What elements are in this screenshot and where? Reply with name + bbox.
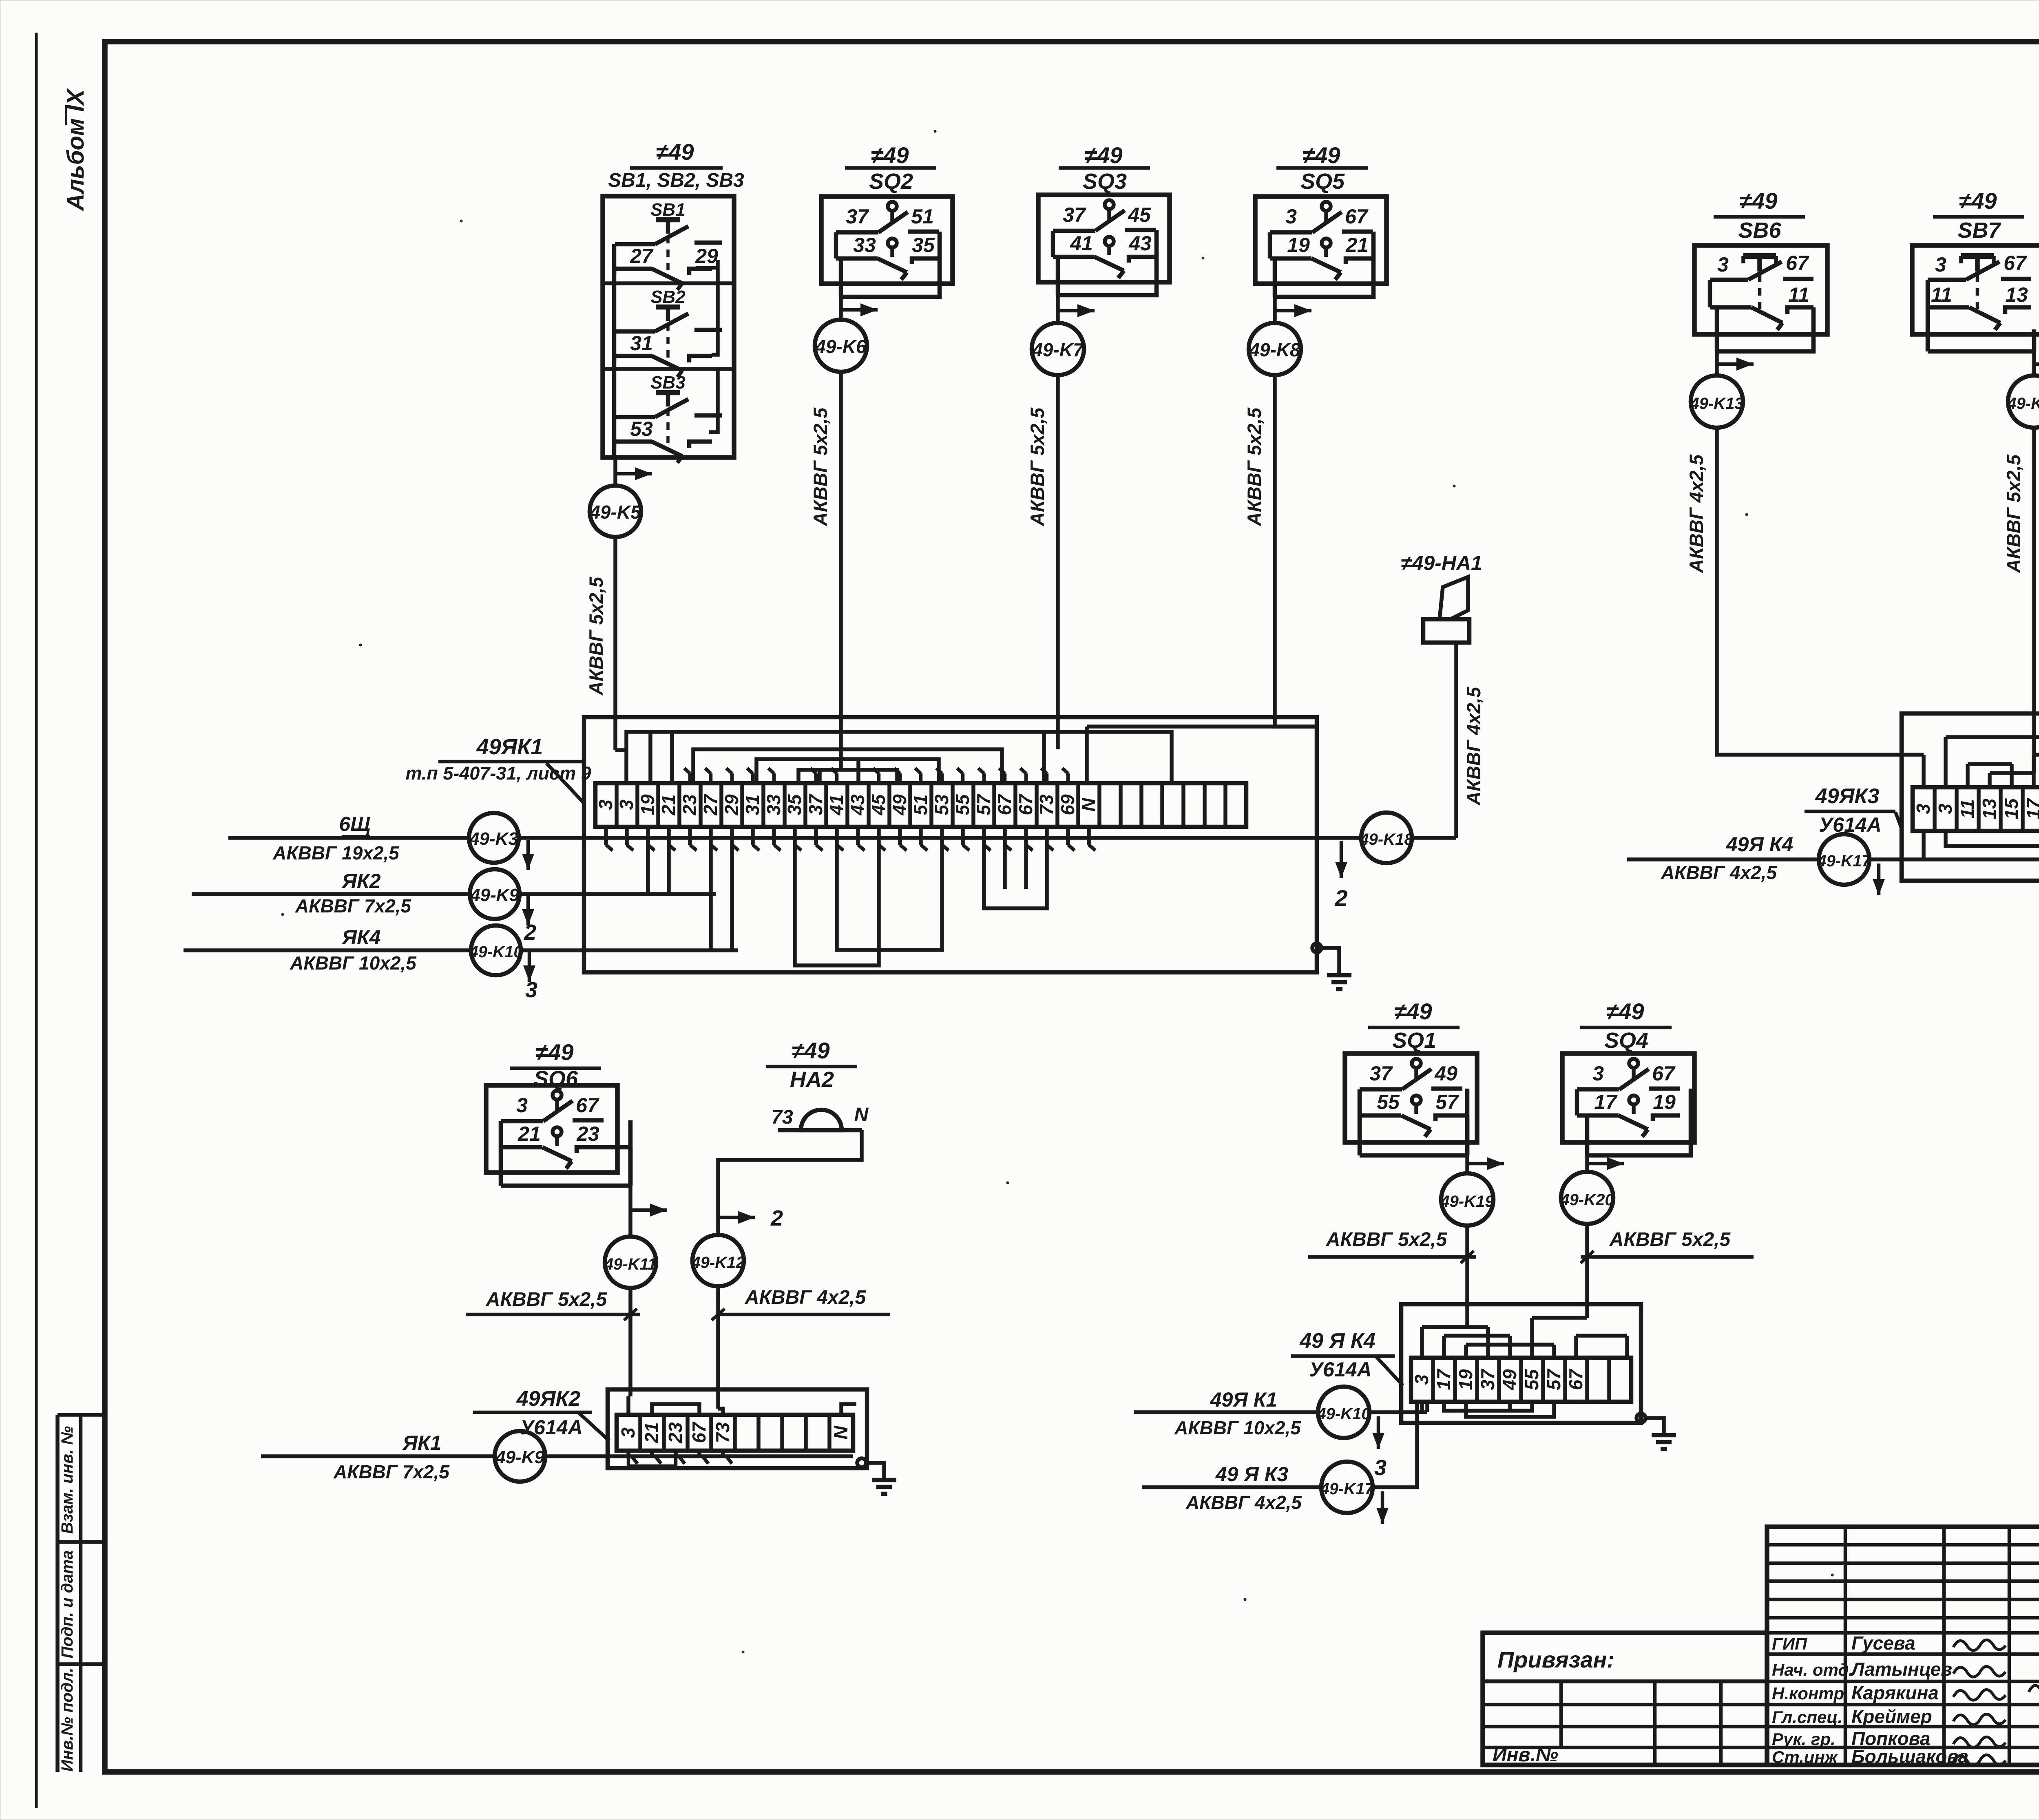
svg-text:31: 31 — [630, 332, 653, 355]
cable label АКВВГ 5х2,5 (K20) — [1581, 1229, 1754, 1263]
svg-text:17: 17 — [1433, 1368, 1454, 1390]
svg-text:49Я К4: 49Я К4 — [1726, 833, 1794, 856]
down arrow node 2 right of 49ЯК1 — [1334, 841, 1347, 911]
wire HA2 to 49-K12 — [718, 1130, 862, 1235]
svg-text:37: 37 — [1369, 1062, 1393, 1085]
svg-text:ЯК4: ЯК4 — [341, 926, 381, 949]
svg-text:27: 27 — [700, 793, 721, 816]
svg-text:≠49: ≠49 — [1302, 142, 1340, 168]
wire SQ5 along top into bundle — [1087, 724, 1317, 729]
svg-text:АКВВГ 4х2,5: АКВВГ 4х2,5 — [1463, 687, 1484, 806]
wire SQ3 into bundle — [1056, 732, 1060, 749]
svg-text:АКВВГ 10х2,5: АКВВГ 10х2,5 — [1174, 1417, 1301, 1438]
svg-text:≠49: ≠49 — [656, 139, 694, 165]
push-button SB6 — [1694, 245, 1827, 351]
svg-text:6Щ: 6Щ — [339, 813, 370, 835]
svg-text:53: 53 — [630, 417, 653, 440]
svg-text:49: 49 — [1499, 1369, 1520, 1391]
wire 49-K19 to 49ЯК4 — [1465, 1226, 1469, 1327]
wire SQ2 into bundle — [839, 741, 843, 770]
svg-text:33: 33 — [763, 794, 784, 815]
svg-text:49-K10: 49-K10 — [1316, 1405, 1370, 1423]
cable label АКВВГ 4х2,5 (HA1) — [1463, 687, 1484, 806]
svg-text:АКВВГ 10х2,5: АКВВГ 10х2,5 — [290, 952, 417, 974]
cable circle 49-K11 — [604, 1237, 657, 1288]
limit switch SQ5 — [1255, 197, 1387, 297]
terminal box 49ЯК2 enclosure — [608, 1389, 867, 1468]
svg-text:3: 3 — [1935, 804, 1956, 814]
svg-text:13: 13 — [1979, 798, 2000, 819]
svg-text:Привязан:: Привязан: — [1497, 1647, 1614, 1672]
svg-text:АКВВГ 7х2,5: АКВВГ 7х2,5 — [333, 1461, 450, 1482]
wire 49-K14 down into 49ЯК3 box — [2032, 428, 2036, 733]
svg-text:31: 31 — [742, 794, 763, 815]
svg-text:3: 3 — [1592, 1062, 1604, 1085]
svg-text:37: 37 — [1477, 1368, 1498, 1390]
svg-text:11: 11 — [1957, 799, 1978, 819]
svg-text:21: 21 — [517, 1122, 541, 1145]
internal wire rail of SB1-SB3 block — [614, 244, 718, 457]
cable circle 49-K8 — [1249, 323, 1301, 375]
terminal box 49ЯК1 enclosure — [584, 717, 1317, 972]
wire SB7 to 49-K14 — [2034, 351, 2039, 375]
svg-text:3: 3 — [616, 800, 637, 810]
internal wiring below 49ЯК4 strip — [1422, 1402, 1554, 1417]
svg-text:49-K8: 49-K8 — [1249, 339, 1300, 360]
svg-text:49-K18: 49-K18 — [1359, 830, 1413, 848]
svg-text:67: 67 — [2004, 252, 2027, 274]
svg-text:49-K9: 49-K9 — [495, 1447, 544, 1467]
wire 49ЯК3 up into 49ЯК4 — [1373, 1402, 1417, 1524]
svg-text:АКВВГ 5х2,5: АКВВГ 5х2,5 — [2003, 454, 2024, 573]
wire 49-K5 to terminal box 49ЯК1 — [613, 537, 617, 750]
line 6Щ with cable label — [228, 813, 469, 864]
svg-text:67: 67 — [1015, 793, 1036, 815]
svg-text:17: 17 — [1594, 1091, 1618, 1113]
svg-text:55: 55 — [1377, 1091, 1400, 1113]
terminal strip 49ЯК2 — [617, 1415, 853, 1451]
svg-text:21: 21 — [1345, 234, 1369, 256]
terminal stubs below 49ЯК1 strip — [606, 827, 1095, 850]
cable label АКВВГ 5х2,5 (K5) — [585, 576, 607, 696]
cable circle 49-K10 — [469, 925, 522, 975]
svg-text:67: 67 — [1565, 1368, 1586, 1390]
node #49 header for SQ3 — [1059, 142, 1150, 194]
svg-text:2: 2 — [770, 1206, 783, 1230]
wire SQ6 to 49-K11 — [630, 1186, 667, 1237]
svg-text:23: 23 — [576, 1122, 599, 1145]
svg-text:3: 3 — [1717, 253, 1729, 276]
push-button SB1 contacts — [614, 200, 722, 290]
svg-text:57: 57 — [1543, 1368, 1564, 1390]
cable circle 49-K9 — [470, 869, 520, 919]
svg-text:11: 11 — [1788, 283, 1809, 306]
horn HA1 — [1423, 577, 1469, 643]
vertical label Подп. и дата — [58, 1551, 76, 1659]
line ЯК1 with cable label — [261, 1431, 494, 1482]
wire 49-K7 to terminal box 49ЯК1 — [1056, 375, 1060, 732]
svg-text:SB7: SB7 — [1957, 218, 2001, 243]
svg-text:У614А: У614А — [520, 1416, 582, 1439]
svg-text:АКВВГ 5х2,5: АКВВГ 5х2,5 — [1026, 407, 1048, 526]
svg-text:21: 21 — [641, 1422, 662, 1443]
terminal stubs below 49ЯК2 strip — [628, 1451, 732, 1466]
title block grid — [1767, 1527, 2039, 1765]
left margin column cells — [57, 1415, 105, 1772]
svg-text:37: 37 — [805, 793, 826, 815]
svg-text:3: 3 — [1411, 1374, 1432, 1385]
svg-text:57: 57 — [973, 793, 994, 815]
wire from SB block to 49-K5 — [615, 457, 652, 486]
svg-text:АКВВГ 5х2,5: АКВВГ 5х2,5 — [1326, 1229, 1448, 1250]
svg-text:41: 41 — [826, 794, 847, 815]
wire SQ4 to 49-K20 — [1587, 1155, 1624, 1172]
svg-text:SQ3: SQ3 — [1083, 169, 1127, 194]
label 49ЯК3 У614А with leader — [1805, 784, 1903, 836]
push-button block SB1 SB2 SB3 enclosure — [603, 196, 734, 457]
svg-text:49-K10: 49-K10 — [469, 943, 522, 961]
vertical label Взам. инв. № — [58, 1426, 76, 1534]
svg-text:Гусева: Гусева — [1851, 1632, 1915, 1654]
svg-text:SQ2: SQ2 — [869, 169, 913, 194]
svg-text:43: 43 — [847, 794, 868, 816]
svg-text:SB3: SB3 — [650, 373, 686, 393]
cable label АКВВГ 5х2,5 (K19) — [1308, 1229, 1476, 1263]
node #49 header for SQ2 — [845, 142, 936, 194]
svg-text:Креймер: Креймер — [1851, 1706, 1932, 1727]
svg-text:49-K5: 49-K5 — [589, 501, 641, 523]
vertical label Альбом IX — [62, 88, 89, 212]
label #49-HA1 — [1401, 552, 1482, 574]
svg-text:Рук. гр.: Рук. гр. — [1772, 1729, 1836, 1749]
scan specks — [281, 130, 2039, 1653]
svg-text:49-K17: 49-K17 — [1320, 1480, 1374, 1498]
svg-text:49-K17: 49-K17 — [1817, 852, 1871, 870]
cable circle 49-K18 — [1359, 813, 1413, 863]
svg-text:Ст.инж: Ст.инж — [1772, 1747, 1838, 1767]
svg-text:55: 55 — [1521, 1369, 1542, 1390]
bell HA2 — [771, 1104, 869, 1130]
svg-text:49: 49 — [889, 794, 910, 816]
earth ground at 49ЯК4 — [1637, 1414, 1676, 1449]
svg-text:19: 19 — [1653, 1091, 1676, 1113]
svg-text:49-K11: 49-K11 — [604, 1255, 657, 1273]
svg-text:55: 55 — [952, 794, 973, 815]
node #49 header for SB6 — [1714, 188, 1805, 243]
svg-text:АКВВГ 4х2,5: АКВВГ 4х2,5 — [1661, 862, 1777, 883]
svg-text:Гл.спец.: Гл.спец. — [1772, 1707, 1842, 1727]
svg-text:11: 11 — [1931, 283, 1952, 306]
sheet title Подъемник скреперный — [2039, 1706, 2039, 1758]
wire SQ2 to 49-K6 — [841, 297, 878, 320]
cable label АКВВГ 5х2,5 (K8) — [1243, 407, 1265, 526]
wire 49-K6 to terminal box 49ЯК1 — [839, 372, 843, 741]
svg-text:67: 67 — [576, 1094, 599, 1117]
svg-text:21: 21 — [658, 794, 679, 815]
svg-text:Инв.№: Инв.№ — [1493, 1744, 1558, 1766]
line 49ЯК3 with cable label (bottom) — [1142, 1463, 1321, 1513]
svg-text:49-K13: 49-K13 — [1690, 395, 1743, 413]
svg-text:SB1, SB2, SB3: SB1, SB2, SB3 — [608, 170, 744, 191]
label 49ЯК2 У614А with leader — [473, 1387, 609, 1441]
svg-text:АКВВГ 5х2,5: АКВВГ 5х2,5 — [585, 576, 607, 696]
wire ЯК4 into 49ЯК1 — [521, 950, 738, 1002]
svg-text:≠49: ≠49 — [1084, 142, 1122, 168]
svg-text:29: 29 — [721, 794, 742, 816]
svg-text:АКВВГ 4х2,5: АКВВГ 4х2,5 — [745, 1287, 867, 1308]
svg-text:2: 2 — [524, 920, 536, 945]
svg-text:АКВВГ 5х2,5: АКВВГ 5х2,5 — [809, 407, 831, 526]
svg-text:37: 37 — [846, 205, 869, 228]
svg-text:SQ5: SQ5 — [1300, 169, 1345, 194]
node #49 header for SQ5 — [1276, 142, 1368, 194]
limit switch SQ6 — [486, 1085, 630, 1186]
svg-text:АКВВГ 4х2,5: АКВВГ 4х2,5 — [1185, 1492, 1302, 1513]
svg-text:≠49: ≠49 — [1739, 188, 1777, 214]
svg-text:N: N — [854, 1104, 869, 1126]
svg-text:49-K6: 49-K6 — [815, 336, 867, 357]
label 49ЯК1 with leader — [405, 735, 591, 804]
cable label АКВВГ 4х2,5 (49-K13) — [1685, 454, 1707, 573]
svg-text:49Я К1: 49Я К1 — [1210, 1388, 1278, 1411]
svg-text:Большакова: Большакова — [1851, 1746, 1968, 1767]
terminal box 49ЯК4 enclosure — [1401, 1304, 1641, 1423]
svg-text:73: 73 — [712, 1422, 733, 1443]
wire SQ3 to 49-K7 — [1058, 295, 1095, 323]
wire 49-K12 to 49ЯК2 — [712, 1286, 725, 1409]
earth ground at 49ЯК2 — [857, 1458, 896, 1494]
svg-text:49 Я К4: 49 Я К4 — [1299, 1329, 1376, 1353]
terminal strip 49ЯК1 — [595, 783, 1246, 827]
long jumpers below 49ЯК1 strip — [648, 845, 1047, 965]
node #49 header for SQ6 — [510, 1039, 601, 1091]
cable circle 49-K7 — [1032, 323, 1084, 375]
page scan edge shadow — [35, 33, 38, 1808]
svg-text:49-K3: 49-K3 — [469, 829, 518, 849]
push-button SB7 — [1912, 245, 2039, 351]
svg-text:3: 3 — [516, 1094, 528, 1117]
svg-text:17: 17 — [2023, 797, 2039, 819]
svg-text:SB6: SB6 — [1738, 218, 1781, 243]
svg-text:27: 27 — [630, 245, 654, 267]
svg-text:SB2: SB2 — [650, 287, 686, 307]
push-button SB3 contacts — [614, 373, 722, 463]
svg-text:3: 3 — [617, 1427, 639, 1438]
svg-text:АКВВГ 7х2,5: АКВВГ 7х2,5 — [295, 895, 411, 917]
limit switch SQ2 — [821, 197, 953, 297]
vertical label Инв. № подл. — [58, 1668, 76, 1772]
wire 49-K11 to 49ЯК2 — [624, 1288, 637, 1396]
cable circle 49-K17 (bottom) — [1320, 1462, 1374, 1513]
line ЯК4 with cable label — [184, 926, 471, 974]
cable circle 49-K9 (bottom) — [495, 1431, 545, 1482]
svg-text:49: 49 — [1434, 1062, 1457, 1085]
svg-text:3: 3 — [1374, 1456, 1387, 1480]
wire 49-K8 down and left into 49ЯК1 box — [1275, 375, 1317, 727]
cable circle 49-K6 — [815, 320, 867, 372]
svg-text:35: 35 — [784, 794, 805, 815]
svg-text:АКВВГ 4х2,5: АКВВГ 4х2,5 — [1685, 454, 1707, 573]
limit switch SQ1 — [1345, 1054, 1477, 1155]
svg-text:Карякина: Карякина — [1851, 1682, 1939, 1703]
wire 49-K17 into 49ЯК3 — [1869, 859, 1902, 895]
svg-text:3: 3 — [1285, 205, 1297, 228]
svg-text:49ЯК1: 49ЯК1 — [476, 735, 543, 759]
terminal box 49ЯК3 enclosure — [1902, 713, 2039, 881]
cable circle 49-K20 — [1560, 1172, 1614, 1224]
svg-text:N: N — [830, 1426, 851, 1440]
svg-text:43: 43 — [1128, 232, 1152, 255]
cable circle 49-K19 — [1440, 1173, 1494, 1226]
svg-text:2: 2 — [1334, 885, 1347, 911]
svg-text:49-K7: 49-K7 — [1032, 339, 1084, 360]
svg-text:≠49: ≠49 — [871, 142, 909, 168]
svg-text:69: 69 — [1057, 794, 1078, 815]
wire 6Щ into 49ЯК1 and to 49-K18 — [519, 838, 1361, 870]
svg-text:41: 41 — [1070, 232, 1093, 255]
jumper bundle above 49ЯК3 strip — [1917, 733, 2039, 787]
svg-text:19: 19 — [637, 794, 658, 815]
svg-text:13: 13 — [2005, 283, 2028, 306]
svg-text:19: 19 — [1287, 234, 1310, 256]
node #49 header for SB7 — [1933, 188, 2024, 243]
svg-text:Взам. инв. №: Взам. инв. № — [58, 1426, 76, 1534]
svg-text:N: N — [1078, 798, 1099, 812]
line 49ЯК4 with cable label into 49ЯК3 — [1627, 833, 1818, 883]
limit switch SQ3 — [1038, 195, 1170, 295]
node #49 header for SB1,SB2,SB3 — [608, 139, 744, 191]
svg-text:23: 23 — [665, 1422, 686, 1444]
svg-text:57: 57 — [1435, 1091, 1459, 1113]
wire 49-K13 down then right into 49ЯК3 box — [1717, 428, 1917, 755]
limit switch SQ4 — [1562, 1054, 1694, 1155]
svg-text:67: 67 — [994, 793, 1015, 815]
cable circle 49-K10 (bottom) — [1316, 1387, 1370, 1438]
svg-text:23: 23 — [679, 794, 700, 816]
push-button SB2 contacts — [614, 287, 722, 377]
cable label АКВВГ 5х2,5 (K6) — [809, 407, 831, 526]
svg-text:3: 3 — [1935, 253, 1946, 276]
cable label АКВВГ 5х2,5 (K7) — [1026, 407, 1048, 526]
svg-text:73: 73 — [1036, 794, 1057, 815]
svg-text:19: 19 — [1455, 1369, 1476, 1390]
terminal strip 49ЯК3 — [1913, 787, 2039, 831]
cable circle 49-K12 — [691, 1235, 745, 1286]
cable label АКВВГ 5х2,5 (K11) — [466, 1289, 640, 1314]
wire 49-K18 to horn HA1 — [1412, 643, 1456, 838]
node #49 header for SQ1 — [1368, 998, 1460, 1053]
svg-text:ГИП: ГИП — [1772, 1634, 1807, 1653]
svg-text:49-K9: 49-K9 — [470, 885, 519, 905]
svg-text:51: 51 — [911, 205, 934, 228]
wire 49-K20 to 49ЯК4 — [1585, 1226, 1589, 1318]
svg-text:49ЯК2: 49ЯК2 — [516, 1387, 581, 1411]
node #49 header for SQ4 — [1580, 998, 1672, 1053]
signatures squiggles — [1953, 1640, 2039, 1765]
svg-text:Латынцев: Латынцев — [1850, 1659, 1952, 1680]
svg-text:Инв.№ подл.: Инв.№ подл. — [58, 1668, 76, 1772]
svg-text:Нач. отд.: Нач. отд. — [1772, 1660, 1853, 1679]
wire SQ1 to 49-K19 — [1467, 1155, 1504, 1173]
svg-text:45: 45 — [868, 794, 889, 816]
label 49 Я К4 У614А with leader — [1291, 1329, 1403, 1385]
svg-text:≠49: ≠49 — [535, 1039, 573, 1065]
cable label АКВВГ 5х2,5 (49-K14) — [2003, 454, 2024, 573]
cable circle 49-K3 — [469, 813, 519, 863]
cable circle 49-K13 — [1690, 375, 1743, 428]
svg-text:Н.контр.: Н.контр. — [1772, 1684, 1849, 1703]
svg-text:АКВВГ 5х2,5: АКВВГ 5х2,5 — [1243, 407, 1265, 526]
jumper bundle above 49ЯК2 strip — [628, 1396, 856, 1415]
svg-text:67: 67 — [1786, 252, 1809, 274]
svg-text:49-K19: 49-K19 — [1440, 1193, 1494, 1210]
svg-text:49 Я К3: 49 Я К3 — [1215, 1463, 1289, 1486]
wire ЯК1 into 49ЯК2 — [545, 1454, 853, 1458]
svg-text:SQ4: SQ4 — [1604, 1028, 1648, 1053]
svg-text:73: 73 — [771, 1107, 793, 1128]
svg-text:67: 67 — [1345, 205, 1369, 228]
svg-text:SQ1: SQ1 — [1392, 1028, 1436, 1053]
jumper bundle above 49ЯК4 strip — [1422, 1318, 1627, 1358]
svg-text:АКВВГ 5х2,5: АКВВГ 5х2,5 — [486, 1289, 608, 1310]
svg-text:49-K14: 49-K14 — [2007, 395, 2039, 413]
svg-text:45: 45 — [1128, 203, 1151, 226]
svg-text:3: 3 — [1913, 804, 1934, 814]
svg-text:37: 37 — [1063, 203, 1086, 226]
svg-text:33: 33 — [853, 234, 876, 256]
svg-text:SB1: SB1 — [650, 200, 686, 220]
line 49ЯК1 with cable label (bottom) — [1134, 1388, 1318, 1438]
cable circle 49-K14 — [2007, 375, 2039, 428]
cable circle 49-K17 — [1817, 834, 1871, 885]
line ЯК2 with cable label — [192, 870, 470, 917]
earth ground at 49ЯК1 — [1312, 943, 1351, 989]
wire 49ЯК1 into 49ЯК4 — [1369, 1412, 1427, 1480]
svg-text:53: 53 — [931, 794, 952, 815]
attachment table Привязан — [1483, 1633, 1767, 1766]
svg-text:51: 51 — [910, 794, 931, 815]
svg-text:≠49: ≠49 — [792, 1038, 829, 1063]
svg-text:29: 29 — [695, 245, 718, 267]
svg-text:У614А: У614А — [1309, 1358, 1371, 1381]
svg-text:≠49: ≠49 — [1606, 998, 1644, 1024]
svg-text:НА2: НА2 — [790, 1067, 834, 1092]
internal wiring below 49ЯК3 strip — [1902, 831, 2039, 859]
wire SB6 to 49-K13 — [1717, 351, 1754, 375]
svg-text:3: 3 — [525, 978, 537, 1002]
svg-text:3: 3 — [595, 800, 616, 810]
svg-text:49-K20: 49-K20 — [1560, 1191, 1614, 1209]
svg-text:49ЯК3: 49ЯК3 — [1815, 784, 1880, 808]
svg-text:≠49: ≠49 — [1959, 188, 1997, 214]
svg-text:ЯК2: ЯК2 — [341, 870, 381, 892]
svg-text:15: 15 — [2001, 798, 2022, 819]
svg-text:35: 35 — [912, 234, 935, 256]
svg-text:≠49-HA1: ≠49-HA1 — [1401, 552, 1482, 574]
signature table roles and names — [1772, 1632, 1968, 1767]
svg-text:ЯК1: ЯК1 — [402, 1431, 442, 1454]
wire SQ5 to 49-K8 — [1275, 297, 1311, 323]
svg-text:≠49: ≠49 — [1394, 998, 1432, 1024]
terminal strip 49ЯК4 — [1411, 1358, 1631, 1402]
svg-text:Подп. и дата: Подп. и дата — [58, 1551, 76, 1659]
svg-text:67: 67 — [1652, 1062, 1676, 1085]
svg-text:АКВВГ 19х2,5: АКВВГ 19х2,5 — [272, 842, 400, 864]
cable circle 49-K5 — [589, 486, 641, 537]
svg-text:67: 67 — [688, 1421, 710, 1443]
cable label АКВВГ 4х2,5 (K12) — [716, 1287, 890, 1314]
svg-text:49-K12: 49-K12 — [691, 1254, 745, 1272]
